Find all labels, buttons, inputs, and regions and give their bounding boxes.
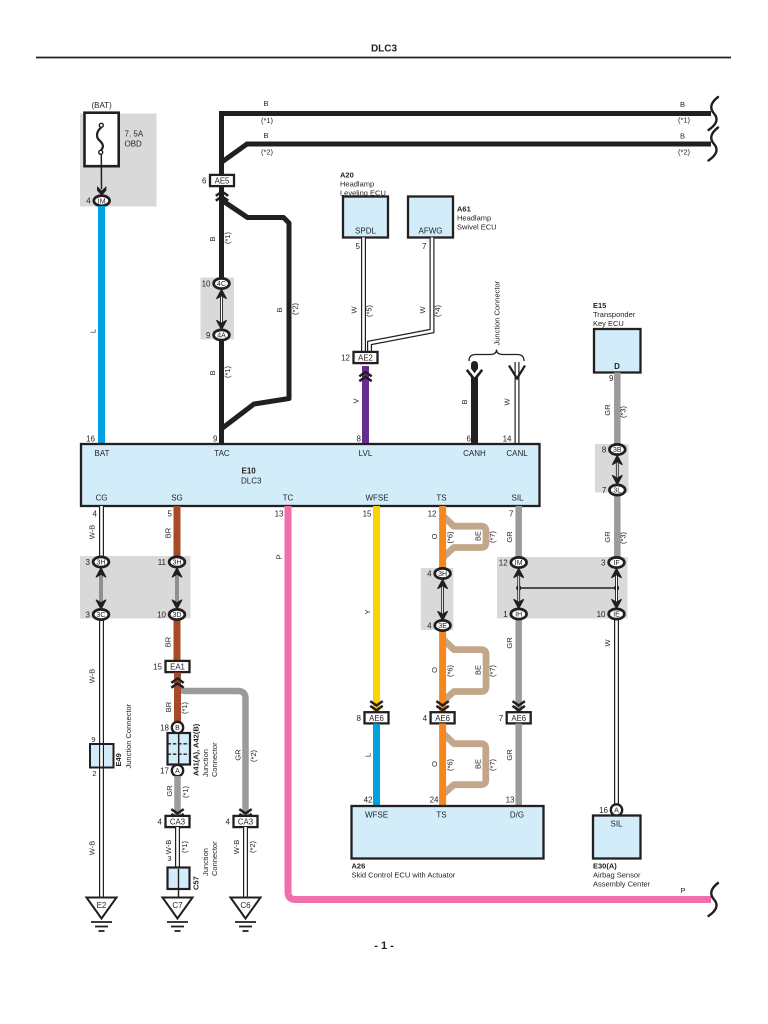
svg-text:CANL: CANL [506,449,528,458]
gray panel 3B/3L [595,444,629,493]
svg-text:8: 8 [357,714,362,723]
svg-text:6: 6 [202,177,207,186]
svg-text:OBD: OBD [125,140,143,149]
svg-text:Headlamp: Headlamp [457,214,491,223]
svg-text:E15: E15 [593,301,606,310]
svg-text:EA1: EA1 [170,663,185,672]
svg-text:12: 12 [428,510,437,519]
svg-text:W-B: W-B [232,840,241,854]
E10 DLC3 connector box [81,444,540,506]
svg-text:5: 5 [356,242,361,251]
junction 17 A [172,765,183,776]
wire W-B (*2) CA3 to C6 [243,827,248,898]
wire Y WFSE to AE6 [373,506,380,712]
junction 1 IH [511,609,527,619]
svg-text:B: B [680,132,685,141]
wire V (violet) AE2 to E10 LVL [362,366,369,444]
wire O (orange) TS [439,506,446,575]
svg-text:(*2): (*2) [249,749,258,762]
svg-text:4: 4 [93,510,98,519]
ground C7 [163,898,193,919]
svg-text:W: W [418,306,427,314]
svg-text:Assembly Center: Assembly Center [593,880,651,889]
svg-text:L: L [89,329,98,333]
svg-text:BE: BE [474,759,483,769]
svg-text:Junction: Junction [201,749,210,777]
svg-text:BR: BR [164,701,173,712]
svg-text:AE5: AE5 [215,177,230,186]
svg-text:Junction Connector: Junction Connector [493,280,502,345]
svg-text:(*6): (*6) [446,664,455,677]
junction 4 3E [435,620,451,630]
wire BE (*7) bulge 3 [443,733,486,795]
junction 10 4C [214,278,230,288]
svg-text:8: 8 [602,446,607,455]
svg-text:(*2): (*2) [291,302,300,315]
svg-text:(*1): (*1) [261,116,274,125]
C57 junction connector [168,868,190,890]
svg-text:Connector: Connector [210,742,219,777]
arrow pair IF-IE [615,573,618,605]
svg-text:5: 5 [168,510,173,519]
svg-text:3: 3 [167,854,171,863]
arrow pair 4C-4A [220,294,223,326]
chevrons above AE6 [370,701,382,705]
svg-text:3C: 3C [97,612,106,619]
svg-text:B: B [208,236,217,241]
svg-text:TS: TS [436,494,446,503]
svg-text:D/G: D/G [510,811,524,820]
svg-text:24: 24 [430,796,439,805]
junction 10 IE [609,609,625,619]
svg-text:Connector: Connector [210,841,219,876]
svg-text:AE2: AE2 [358,354,373,363]
wire B (*2) branch loop [223,201,290,428]
svg-text:E30(A): E30(A) [593,862,617,871]
arrow pair 3B-3L [616,460,619,481]
svg-text:BR: BR [164,527,173,538]
svg-text:3D: 3D [173,612,182,619]
svg-text:AFWG: AFWG [419,227,443,236]
svg-text:CANH: CANH [463,449,486,458]
svg-text:Junction: Junction [201,848,210,876]
A41(A), A42(B) junction connector grid [168,733,191,765]
svg-text:15: 15 [153,663,162,672]
svg-text:CA3: CA3 [170,818,185,827]
wire GR IH to AE6 [515,613,522,713]
svg-text:(*1): (*1) [678,116,691,125]
connector 4 CA3 left [166,816,190,827]
wire GR SIL to IM [515,506,522,564]
wire W-B CG to E2 [99,506,104,563]
svg-text:6: 6 [467,435,472,444]
svg-text:O: O [430,667,439,673]
svg-text:W: W [603,639,612,647]
svg-text:SIL: SIL [610,820,623,829]
svg-text:A41(A), A42(B): A41(A), A42(B) [192,723,201,776]
connector 12 AE2 [354,352,378,363]
wire W-B (*1) CA3 to C7 [175,827,180,868]
break symbol P [709,883,719,916]
svg-text:(*7): (*7) [488,664,497,677]
connector 4 CA3 right [234,816,258,827]
junction 7 3L [609,485,625,495]
brace [469,350,524,362]
svg-text:4C: 4C [217,281,226,288]
junction 9 4A [214,330,230,340]
junction 8 3B [609,444,625,454]
svg-text:A26: A26 [352,862,366,871]
svg-text:P: P [680,886,685,895]
svg-text:GR: GR [165,785,174,797]
svg-text:BR: BR [164,636,173,647]
svg-text:B: B [263,99,268,108]
chevrons below EA1 [171,679,183,683]
svg-text:SG: SG [171,494,183,503]
svg-text:D: D [614,362,620,371]
svg-text:7: 7 [509,510,514,519]
svg-text:AE6: AE6 [369,714,384,723]
gray panel IM/IH/IF/IE [497,557,628,619]
arrow pair IM-IH [517,573,520,605]
svg-text:GR: GR [603,404,612,416]
svg-text:3: 3 [601,559,606,568]
svg-text:Swivel ECU: Swivel ECU [457,223,497,232]
svg-text:9: 9 [213,435,218,444]
arrow pair 3H-3C [100,572,103,605]
svg-text:W-B: W-B [88,525,97,539]
svg-text:O: O [430,761,439,767]
svg-text:Skid Control ECU with Actuator: Skid Control ECU with Actuator [352,871,456,880]
svg-text:DLC3: DLC3 [371,44,398,55]
svg-text:11: 11 [158,558,167,567]
svg-text:7: 7 [499,714,504,723]
connector 6 AE5 [210,175,234,186]
E30(A) Airbag Sensor box [593,816,641,859]
svg-text:4: 4 [226,818,231,827]
arrow pair 3H-3D [176,572,179,605]
svg-text:B: B [175,725,180,732]
svg-text:TC: TC [283,494,294,503]
svg-text:A61: A61 [457,205,471,214]
svg-text:4: 4 [158,818,163,827]
svg-text:BAT: BAT [95,449,110,458]
svg-text:BE: BE [474,665,483,675]
wire BR SG to EA1 [174,506,181,563]
svg-text:10: 10 [597,610,606,619]
break symbol B (*2) [709,128,719,161]
junction 11 3H [169,557,185,567]
svg-text:9: 9 [609,374,614,383]
svg-text:18: 18 [160,724,169,733]
link line [519,587,617,589]
header rule [36,57,731,59]
svg-text:16: 16 [599,806,608,815]
svg-text:16: 16 [86,435,95,444]
svg-text:C57: C57 [192,876,201,890]
svg-text:(*3): (*3) [619,405,628,418]
svg-text:WFSE: WFSE [365,811,388,820]
svg-text:(*3): (*3) [619,531,628,544]
svg-text:4: 4 [86,197,91,206]
svg-text:1: 1 [503,610,508,619]
wire BE (*7) bulge 1 [443,516,486,558]
svg-text:P: P [275,554,284,559]
svg-text:(BAT): (BAT) [91,101,112,110]
svg-text:15: 15 [363,510,372,519]
A26 Skid Control ECU box [352,806,544,859]
svg-text:- 1 -: - 1 - [374,940,394,952]
svg-text:TS: TS [436,811,446,820]
gray panel behind fuse [80,114,157,207]
svg-text:GR: GR [505,749,514,761]
svg-text:B: B [263,131,268,140]
wire GR (*2) branch to CA3 [178,684,246,817]
svg-text:Headlamp: Headlamp [340,180,374,189]
svg-text:GR: GR [505,637,514,649]
junction 18 B [172,722,183,733]
svg-text:B: B [208,370,217,375]
svg-text:14: 14 [503,435,512,444]
wire GR (*3) E15 to 3B [614,373,621,451]
svg-text:BE: BE [474,531,483,541]
svg-text:Transponder: Transponder [593,310,636,319]
svg-text:4A: 4A [217,333,226,340]
svg-text:3H: 3H [173,560,182,567]
chevrons above AE6 right [513,701,525,705]
fuse 7.5A OBD [85,113,119,167]
svg-text:DLC3: DLC3 [241,477,262,486]
svg-text:3: 3 [86,558,91,567]
svg-text:42: 42 [364,796,373,805]
svg-text:CG: CG [96,494,108,503]
svg-text:3H: 3H [97,560,106,567]
wire fuse to IM [100,155,102,189]
svg-text:(*1): (*1) [181,785,190,798]
wire B (*2) horizontal [221,144,712,163]
wire L (cyan) AE6 to A26 WFSE [373,724,380,807]
svg-text:W-B: W-B [88,841,97,855]
svg-text:O: O [430,533,439,539]
svg-text:8: 8 [357,435,362,444]
gray panel 3H/3E [421,568,454,630]
svg-text:3E: 3E [438,623,447,630]
svg-text:E2: E2 [97,901,107,910]
connector 4 IM [94,196,110,206]
ground C6 [231,898,261,919]
wire W (*4) AFWG to AE2 [370,238,433,353]
A61 Headlamp Swivel ECU [408,197,453,238]
svg-text:B: B [680,100,685,109]
svg-text:(*7): (*7) [488,530,497,543]
svg-text:SPDL: SPDL [355,227,376,236]
svg-text:TAC: TAC [214,449,230,458]
svg-text:(*6): (*6) [446,531,455,544]
svg-text:LVL: LVL [359,449,373,458]
connector 7 AE6 [507,712,531,723]
svg-text:V: V [352,398,361,403]
pin 16 A [611,804,622,815]
svg-text:Junction Connector: Junction Connector [124,703,133,768]
svg-text:IH: IH [515,612,522,619]
svg-text:10: 10 [202,280,211,289]
svg-text:(*4): (*4) [433,304,442,317]
svg-text:9: 9 [91,735,95,744]
svg-text:Airbag Sensor: Airbag Sensor [593,871,641,880]
wire W IE to E30 [614,613,619,806]
svg-text:(*6): (*6) [446,758,455,771]
svg-text:IF: IF [613,560,619,567]
wire B CANH [471,365,478,445]
wire W (*5) SPDL to AE2 [361,238,366,353]
svg-text:3: 3 [86,611,91,620]
svg-text:Key ECU: Key ECU [593,319,624,328]
svg-text:IE: IE [613,612,620,619]
svg-text:Y: Y [363,609,372,614]
ground E2 [87,898,117,919]
svg-text:(*2): (*2) [261,148,274,157]
svg-text:13: 13 [506,796,515,805]
svg-text:(*1): (*1) [223,365,232,378]
chevrons below AE2 [359,372,371,376]
svg-text:(*2): (*2) [248,840,257,853]
svg-text:4: 4 [427,622,432,631]
svg-text:12: 12 [499,559,508,568]
arrow pair 3H-3E [441,584,444,617]
svg-text:(*2): (*2) [678,148,691,157]
svg-text:(*1): (*1) [180,701,189,714]
chevrons above CA3 [171,809,183,813]
svg-text:CA3: CA3 [238,818,253,827]
junction 3 3C [93,609,109,619]
break symbol B (*1) [709,97,719,130]
svg-text:(*1): (*1) [223,231,232,244]
svg-text:7: 7 [422,242,427,251]
svg-text:AE6: AE6 [435,714,450,723]
svg-text:A20: A20 [340,171,354,180]
svg-text:B: B [275,307,284,312]
wire W CANL [515,362,520,444]
wire GR AE6 to A26 D/G [515,724,522,807]
svg-text:SIL: SIL [511,494,524,503]
junction 3 IF [609,557,625,567]
svg-text:L: L [364,753,373,757]
wire BE (*7) bulge 2 [443,639,487,702]
svg-text:13: 13 [275,510,284,519]
wire BR (*1) EA1 to B [174,673,181,723]
svg-text:IM: IM [515,560,523,567]
wire P (pink) TC to right edge [288,506,711,900]
chevrons above CA3 right [239,809,251,813]
connector 4 AE6 [431,712,455,723]
wire O (orange) 3E to AE6 [439,625,446,713]
svg-text:(*1): (*1) [180,840,189,853]
svg-text:2: 2 [92,769,96,778]
svg-text:B: B [460,399,469,404]
svg-text:W: W [503,398,512,406]
svg-text:4: 4 [427,570,432,579]
svg-text:3L: 3L [613,488,621,495]
svg-text:A: A [175,768,180,775]
E49 junction connector [90,744,114,768]
svg-text:17: 17 [160,767,169,776]
junction 12 IM [511,557,527,567]
junction 3 3H [93,557,109,567]
svg-text:W: W [350,306,359,314]
connector 15 EA1 [166,661,190,672]
wire O (orange) AE6 to A26 TS [439,724,446,807]
junction 10 3D [169,609,185,619]
wire L (cyan) fuse to E10 BAT [98,206,105,444]
wire B (*1) AE5 to E10 TAC [219,187,224,285]
svg-text:A: A [614,808,619,815]
svg-text:E49: E49 [114,753,123,766]
wire GR (*3) 3L to IF [614,489,621,564]
chevrons above AE6 mid [436,701,448,705]
svg-text:AE6: AE6 [511,714,526,723]
svg-text:C6: C6 [240,901,251,910]
connector 8 AE6 [365,712,389,723]
svg-text:GR: GR [603,531,612,543]
svg-text:3H: 3H [438,571,447,578]
wire GR (*1) A to CA3 [174,776,181,816]
svg-text:GR: GR [505,531,514,543]
gray panel 4C/4A [201,278,235,340]
svg-text:C7: C7 [172,901,183,910]
svg-text:4: 4 [423,714,428,723]
svg-text:10: 10 [157,611,166,620]
junction 4 3H [435,568,451,578]
svg-text:3B: 3B [613,447,622,454]
svg-text:(*5): (*5) [365,304,374,317]
svg-text:W-B: W-B [88,669,97,683]
wire B (*1) horizontal [222,114,712,177]
svg-text:E10: E10 [242,467,257,476]
svg-text:(*7): (*7) [488,758,497,771]
svg-text:9: 9 [206,331,211,340]
chevrons below AE5 [216,192,228,196]
svg-text:W-B: W-B [164,840,173,854]
svg-text:WFSE: WFSE [365,494,388,503]
svg-text:12: 12 [341,354,350,363]
svg-text:IM: IM [98,198,106,205]
svg-text:GR: GR [234,749,243,761]
svg-text:7: 7 [602,486,607,495]
svg-text:7. 5A: 7. 5A [125,130,144,139]
gray panel 3H/3C and 3H/3D [80,556,191,619]
